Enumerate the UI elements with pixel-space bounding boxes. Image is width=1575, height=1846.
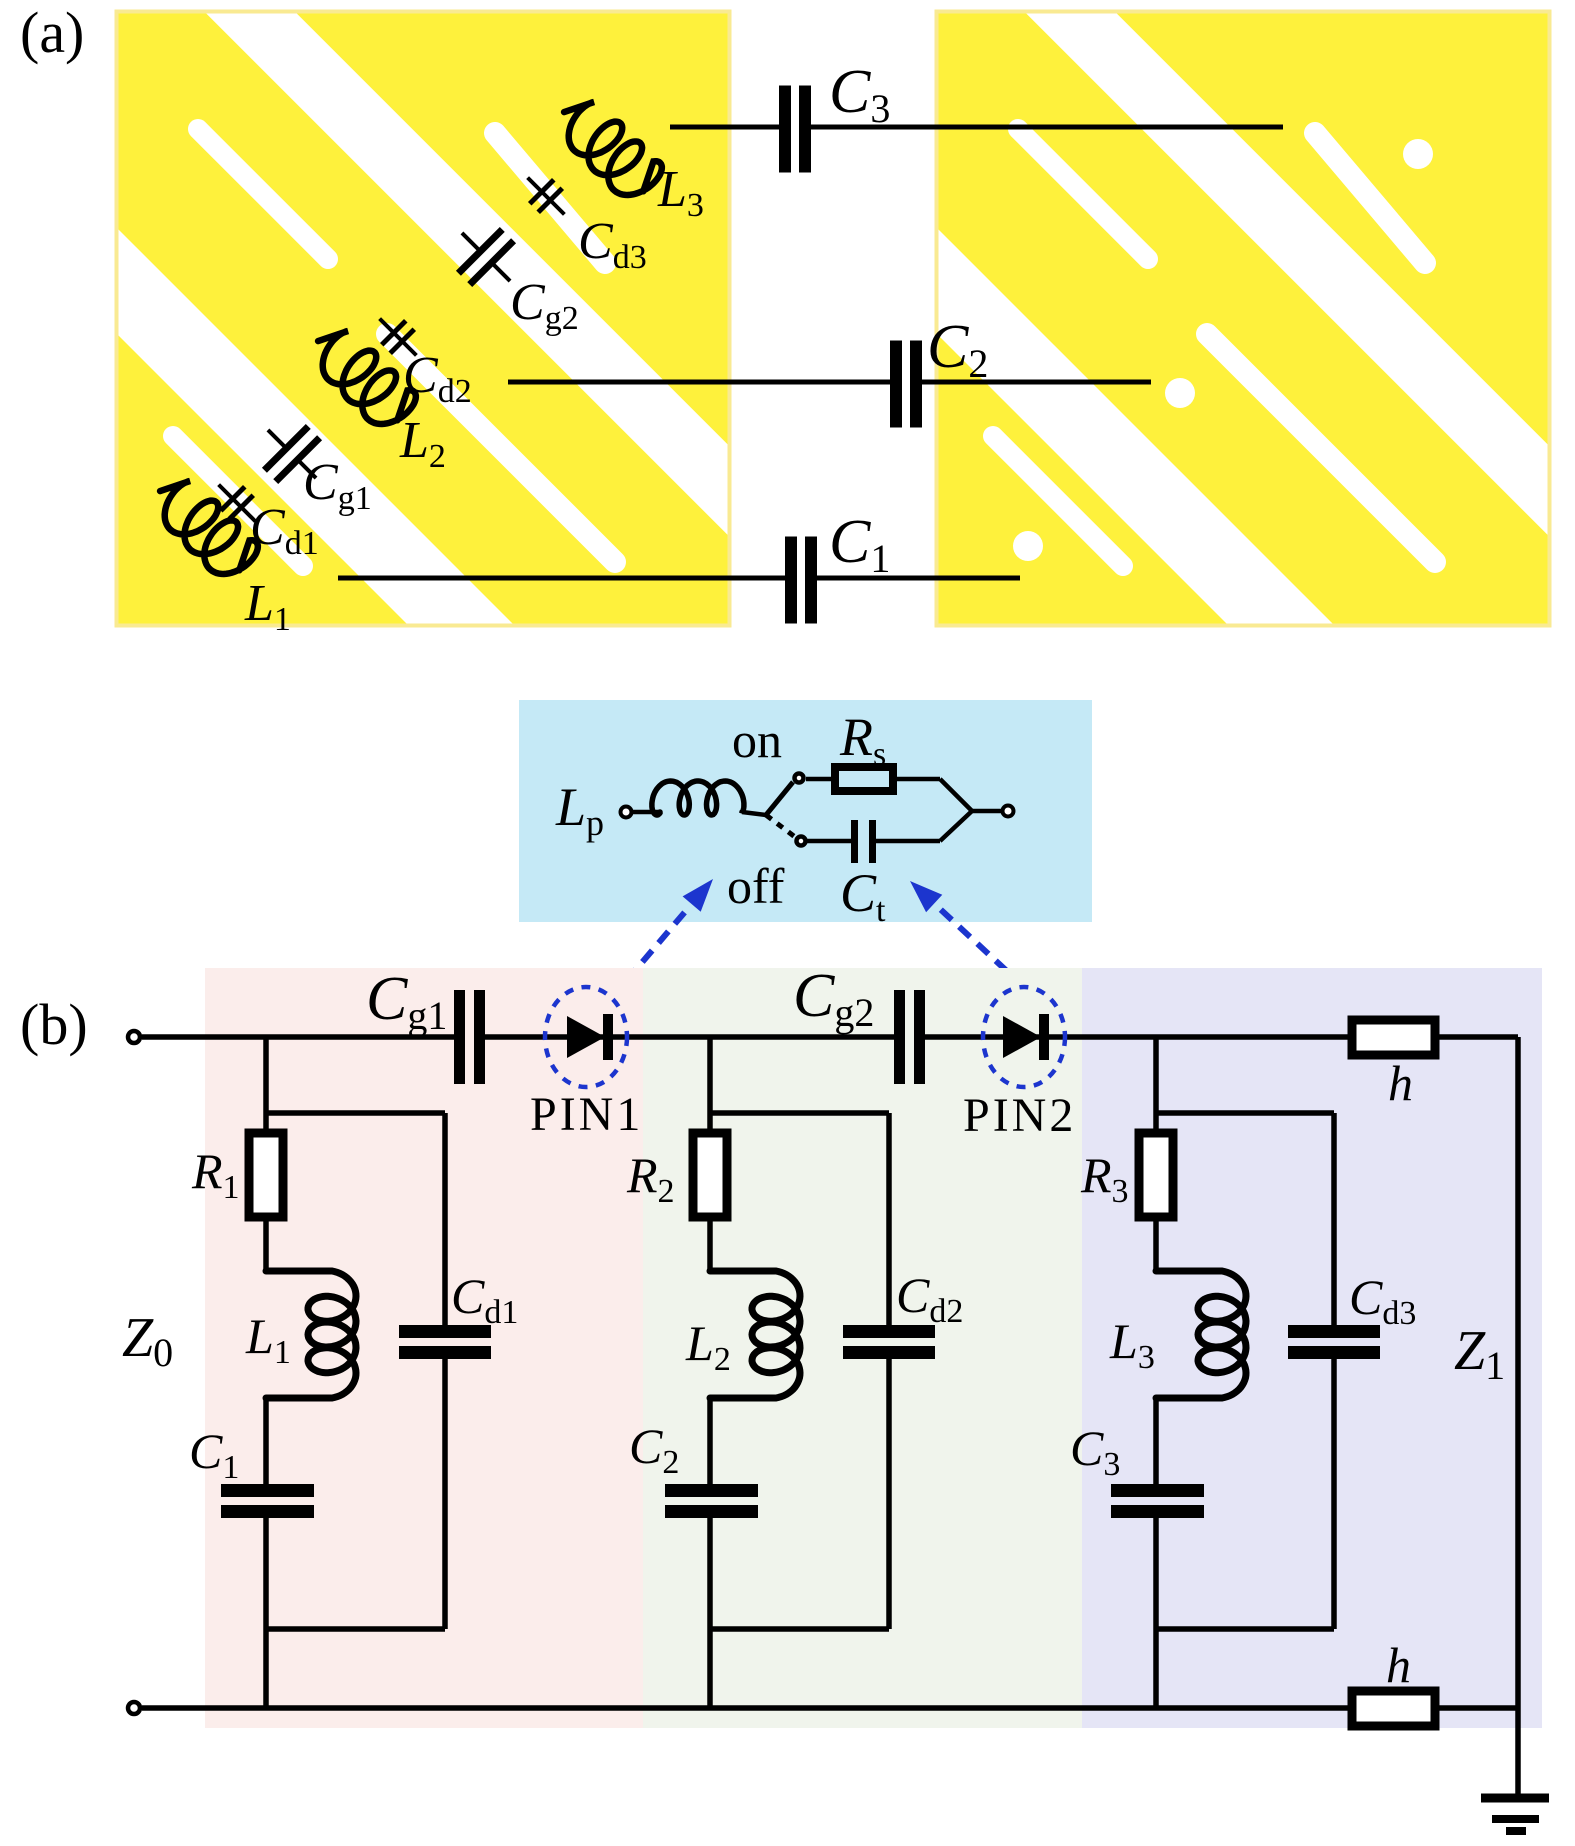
svg-text:h: h <box>1388 1055 1413 1111</box>
svg-text:off: off <box>727 858 785 914</box>
svg-text:PIN1: PIN1 <box>530 1088 643 1141</box>
svg-text:(a): (a) <box>20 0 84 65</box>
svg-text:(b): (b) <box>20 992 88 1057</box>
svg-text:on: on <box>732 712 782 768</box>
svg-text:h: h <box>1386 1637 1411 1693</box>
svg-text:PIN2: PIN2 <box>963 1089 1076 1142</box>
